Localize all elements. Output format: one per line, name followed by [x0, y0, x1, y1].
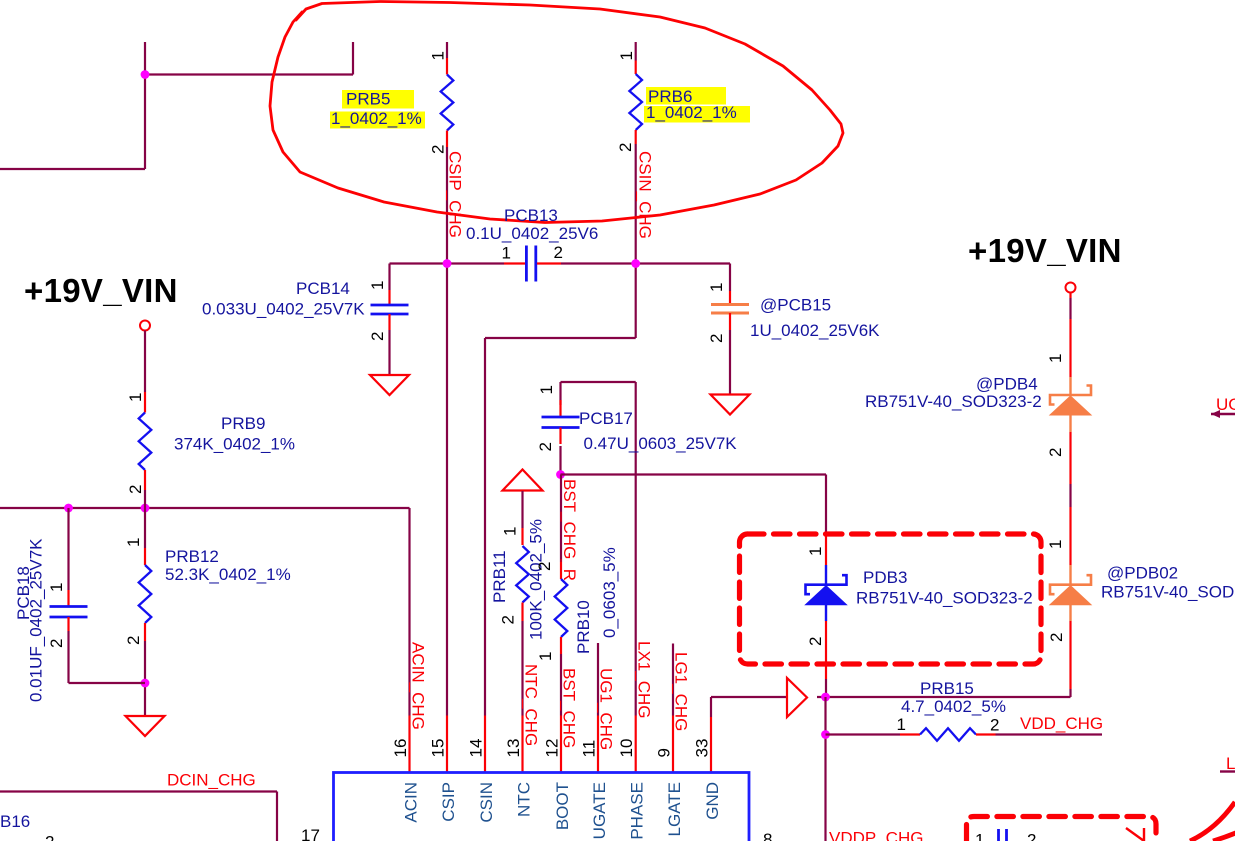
svg-text:CSIN: CSIN [477, 782, 496, 823]
svg-text:0.033U_0402_25V7K: 0.033U_0402_25V7K [202, 300, 365, 319]
svg-text:NTC: NTC [515, 782, 534, 817]
svg-text:BST_CHG: BST_CHG [560, 668, 579, 748]
svg-text:33: 33 [693, 739, 712, 758]
svg-text:1: 1 [429, 51, 448, 60]
svg-text:1: 1 [47, 583, 66, 592]
svg-text:PCB17: PCB17 [579, 409, 633, 428]
svg-text:4.7_0402_5%: 4.7_0402_5% [901, 697, 1006, 716]
svg-text:2: 2 [616, 143, 635, 152]
svg-text:PRB9: PRB9 [221, 414, 265, 433]
svg-text:2: 2 [1046, 448, 1065, 457]
svg-text:BOOT: BOOT [553, 782, 572, 830]
svg-text:UG1_CHG: UG1_CHG [597, 668, 616, 750]
svg-text:BST_CHG_R: BST_CHG_R [560, 479, 579, 581]
svg-text:+19V_VIN: +19V_VIN [968, 232, 1122, 269]
svg-text:2: 2 [1047, 633, 1066, 642]
svg-text:RB751V-40_SOD323-2: RB751V-40_SOD323-2 [1101, 583, 1235, 602]
svg-text:1: 1 [975, 831, 984, 841]
svg-text:1U_0402_25V6K: 1U_0402_25V6K [750, 321, 880, 340]
svg-text:0.47U_0603_25V7K: 0.47U_0603_25V7K [584, 434, 738, 453]
svg-text:@PDB4: @PDB4 [976, 375, 1038, 394]
svg-text:2: 2 [126, 485, 145, 494]
svg-text:1: 1 [537, 385, 556, 394]
svg-text:B16: B16 [0, 812, 30, 831]
svg-text:UG: UG [1216, 395, 1235, 414]
svg-text:1: 1 [536, 652, 555, 661]
svg-text:1: 1 [707, 283, 726, 292]
svg-text:1: 1 [806, 547, 825, 556]
svg-text:CSIN_CHG: CSIN_CHG [636, 151, 655, 239]
svg-text:GND: GND [703, 782, 722, 820]
svg-text:8: 8 [763, 830, 772, 841]
svg-text:13: 13 [504, 739, 523, 758]
svg-text:0_0603_5%: 0_0603_5% [600, 547, 619, 638]
svg-text:2: 2 [368, 332, 387, 341]
svg-text:ACIN_CHG: ACIN_CHG [409, 642, 428, 730]
svg-text:CSIP: CSIP [439, 782, 458, 822]
svg-text:VDD_CHG: VDD_CHG [1020, 714, 1103, 733]
svg-text:1: 1 [1046, 354, 1065, 363]
svg-text:14: 14 [467, 739, 486, 758]
svg-text:@PDB02: @PDB02 [1107, 564, 1178, 583]
svg-text:NTC_CHG: NTC_CHG [522, 664, 541, 746]
svg-text:VDDP_CHG: VDDP_CHG [829, 829, 923, 841]
svg-text:2: 2 [554, 243, 563, 262]
svg-text:1_0402_1%: 1_0402_1% [331, 109, 422, 128]
svg-text:2: 2 [45, 833, 54, 841]
svg-text:2: 2 [47, 639, 66, 648]
svg-text:12: 12 [543, 739, 562, 758]
svg-text:2: 2 [536, 442, 555, 451]
svg-text:1: 1 [617, 51, 636, 60]
svg-text:1: 1 [501, 527, 520, 536]
svg-text:+19V_VIN: +19V_VIN [24, 272, 178, 309]
svg-text:1: 1 [124, 538, 143, 547]
svg-text:2: 2 [707, 334, 726, 343]
svg-text:0.01UF_0402_25V7K: 0.01UF_0402_25V7K [27, 538, 46, 702]
svg-text:100K_0402_5%: 100K_0402_5% [527, 519, 546, 640]
svg-text:16: 16 [391, 739, 410, 758]
svg-text:PRB12: PRB12 [165, 547, 219, 566]
svg-text:PRB11: PRB11 [490, 550, 509, 603]
svg-text:LGATE: LGATE [665, 782, 684, 836]
svg-text:1: 1 [368, 281, 387, 290]
svg-text:10: 10 [617, 739, 636, 758]
svg-text:RB751V-40_SOD323-2: RB751V-40_SOD323-2 [865, 392, 1042, 411]
svg-text:2: 2 [429, 145, 448, 154]
svg-text:9: 9 [655, 748, 674, 757]
svg-text:0.1U_0402_25V6: 0.1U_0402_25V6 [466, 224, 598, 243]
svg-text:PRB5: PRB5 [346, 90, 390, 109]
svg-text:PRB10: PRB10 [574, 600, 593, 654]
svg-text:2: 2 [990, 716, 999, 735]
svg-text:2: 2 [535, 562, 554, 571]
svg-text:PCB13: PCB13 [504, 206, 558, 225]
svg-text:LX1_CHG: LX1_CHG [635, 641, 654, 718]
svg-text:2: 2 [124, 636, 143, 645]
svg-text:PDB3: PDB3 [863, 568, 907, 587]
svg-text:2: 2 [499, 615, 518, 624]
svg-text:1: 1 [126, 393, 145, 402]
svg-text:LG1_CHG: LG1_CHG [672, 652, 691, 731]
svg-text:@PCB15: @PCB15 [760, 296, 831, 315]
svg-text:1_0402_1%: 1_0402_1% [646, 103, 737, 122]
svg-text:11: 11 [580, 740, 599, 758]
svg-text:17: 17 [301, 826, 320, 841]
svg-text:374K_0402_1%: 374K_0402_1% [174, 435, 295, 454]
svg-text:1: 1 [502, 244, 511, 263]
svg-text:PHASE: PHASE [628, 782, 647, 840]
svg-text:ACIN: ACIN [402, 782, 421, 823]
svg-text:PCB14: PCB14 [296, 279, 350, 298]
svg-text:2: 2 [806, 637, 825, 646]
svg-text:15: 15 [429, 739, 448, 758]
svg-text:L: L [1226, 754, 1235, 773]
svg-text:PRB15: PRB15 [920, 679, 974, 698]
svg-text:2: 2 [1027, 831, 1036, 841]
svg-text:RB751V-40_SOD323-2: RB751V-40_SOD323-2 [856, 589, 1033, 608]
svg-text:52.3K_0402_1%: 52.3K_0402_1% [165, 565, 291, 584]
svg-text:1: 1 [1046, 540, 1065, 549]
svg-text:DCIN_CHG: DCIN_CHG [167, 771, 256, 790]
svg-text:1: 1 [897, 715, 906, 734]
svg-text:CSIP_CHG: CSIP_CHG [446, 151, 465, 238]
svg-text:UGATE: UGATE [590, 782, 609, 839]
